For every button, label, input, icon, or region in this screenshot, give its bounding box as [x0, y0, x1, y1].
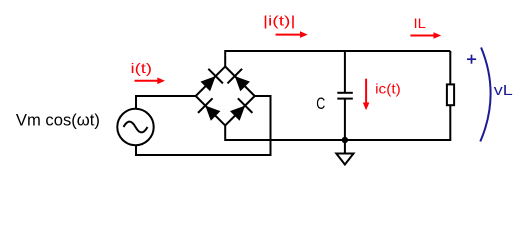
capacitor C plates [337, 92, 353, 94]
wire source bottom lead and bottom rail [136, 96, 271, 155]
svg-text:vL: vL [494, 83, 513, 99]
ground [344, 140, 346, 154]
svg-text:ic(t): ic(t) [375, 81, 401, 97]
brace vL [480, 48, 490, 142]
svg-text:IL: IL [414, 15, 427, 31]
capacitor C bottom lead [344, 99, 346, 140]
diode D4 (bottom corner to right corner) [228, 98, 253, 123]
junction dot [342, 137, 348, 143]
wire source top lead [136, 96, 196, 109]
wire bridge bottom to ground rail [225, 105, 450, 140]
diode D3 (bottom corner to left corner) [198, 98, 223, 123]
diode D1 (left corner to top corner) [198, 69, 223, 94]
diode bridge diamond (edges) [196, 67, 255, 126]
diode D2 (right corner to top corner) [228, 69, 253, 94]
capacitor C top lead [344, 51, 346, 93]
svg-text:Vm cos(ωt): Vm cos(ωt) [16, 110, 100, 129]
voltage source Vs [117, 109, 153, 145]
label + (load polarity) [467, 58, 476, 60]
current arrow i(t) [135, 80, 159, 82]
wire top rail (bridge output to load) [225, 51, 450, 67]
sine symbol [124, 122, 148, 133]
current arrow |i(t)| [276, 34, 302, 36]
load resistor RL [449, 51, 451, 84]
current arrow IL [410, 35, 434, 37]
svg-text:|i(t)|: |i(t)| [263, 12, 296, 28]
svg-text:i(t): i(t) [131, 60, 153, 76]
current arrow ic(t) [365, 79, 367, 103]
svg-text:C: C [316, 94, 325, 113]
